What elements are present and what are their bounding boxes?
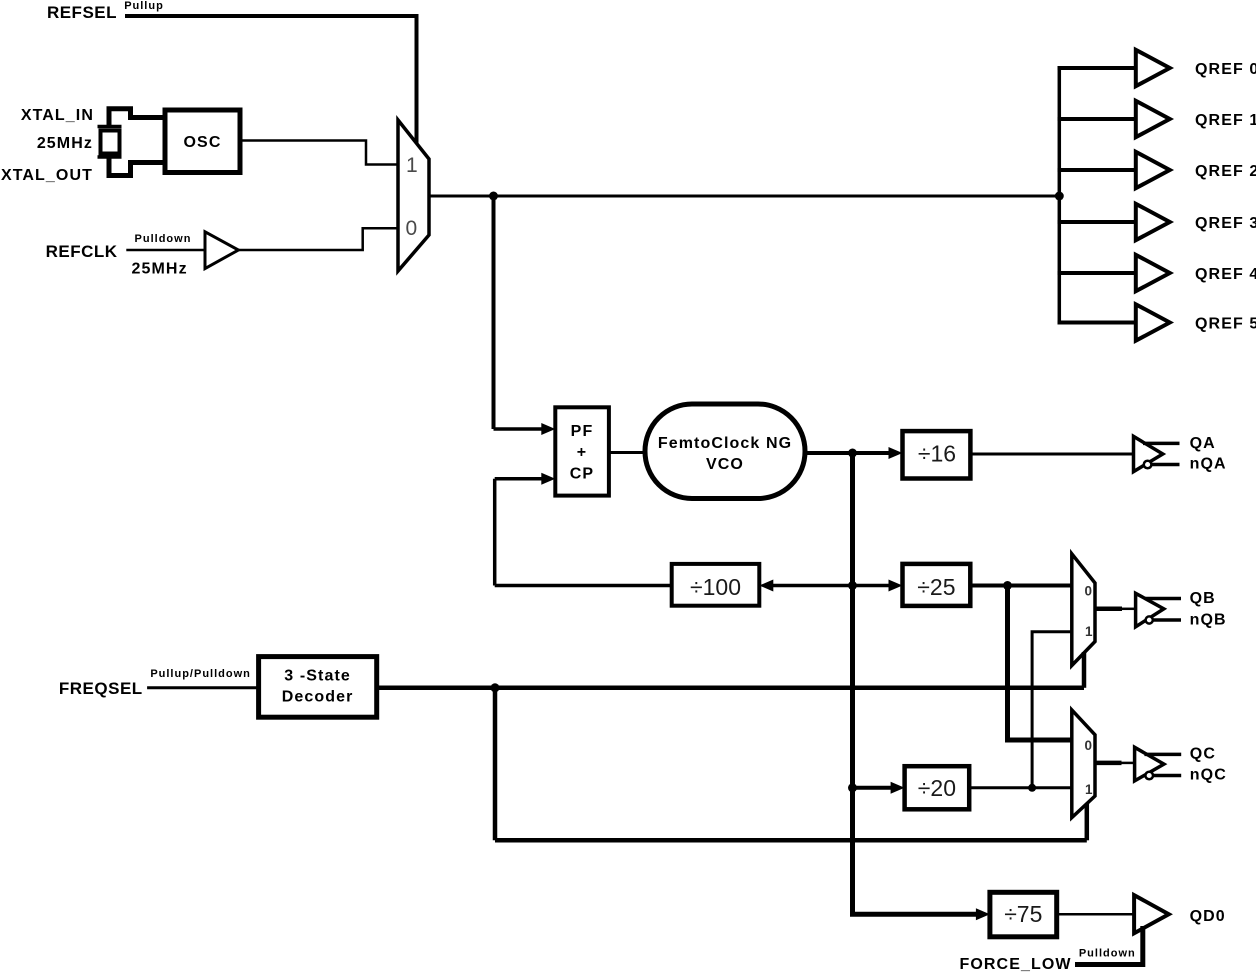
svg-text:÷100: ÷100 bbox=[690, 574, 741, 600]
wire VCO trunk vertical bbox=[850, 453, 855, 914]
block PF+CP bbox=[555, 407, 609, 495]
svg-text:FORCE_LOW: FORCE_LOW bbox=[959, 956, 1071, 973]
mux QC select bbox=[1072, 710, 1095, 818]
svg-text:1: 1 bbox=[406, 154, 418, 177]
wire QC mux select vertical bbox=[1085, 803, 1090, 840]
wire feedback vertical bbox=[493, 479, 497, 586]
svg-text:QB: QB bbox=[1190, 590, 1216, 607]
wire QB output bbox=[1145, 597, 1181, 601]
buffer QREF0 bbox=[1136, 50, 1170, 86]
svg-text:Pullup/Pulldown: Pullup/Pulldown bbox=[150, 668, 251, 680]
svg-text:QREF 5: QREF 5 bbox=[1195, 316, 1256, 333]
bubble nQB bbox=[1146, 616, 1153, 623]
svg-text:nQB: nQB bbox=[1190, 612, 1227, 629]
svg-text:0: 0 bbox=[1085, 738, 1093, 753]
divider div20 bbox=[905, 766, 970, 809]
svg-text:+: + bbox=[577, 444, 587, 461]
buffer QREF4 bbox=[1136, 255, 1170, 291]
wire FORCE_LOW to QD0 buffer bbox=[1075, 926, 1143, 965]
wire XTAL_IN bbox=[109, 109, 165, 127]
junction div20 input bbox=[848, 783, 857, 792]
svg-text:÷75: ÷75 bbox=[1004, 901, 1042, 927]
svg-text:FREQSEL: FREQSEL bbox=[59, 679, 143, 698]
divider div100 bbox=[672, 564, 760, 606]
wire to div25 bbox=[853, 584, 897, 588]
wire OSC to mux input 1 bbox=[240, 141, 398, 165]
block OSC bbox=[165, 110, 240, 173]
wire QREF1 branch bbox=[1058, 117, 1136, 121]
buffer QC differential bbox=[1135, 747, 1164, 781]
junction VCO output bbox=[848, 449, 857, 458]
crystal Y1 bottom plate bbox=[98, 155, 122, 159]
arrowhead into PF+CP ref input bbox=[541, 423, 555, 435]
svg-text:Pulldown: Pulldown bbox=[135, 233, 192, 245]
arrowhead into div75 bbox=[976, 908, 990, 920]
svg-text:REFCLK: REFCLK bbox=[46, 242, 118, 261]
svg-text:0: 0 bbox=[1085, 584, 1093, 599]
svg-text:3 -State: 3 -State bbox=[284, 668, 351, 685]
junction div20 output bbox=[1028, 784, 1036, 792]
arrowhead into div16 bbox=[889, 447, 903, 459]
wire feedback into PF+CP bbox=[495, 477, 545, 481]
junction div100 line bbox=[848, 581, 857, 590]
svg-text:QC: QC bbox=[1190, 746, 1216, 763]
block 3-State Decoder bbox=[259, 657, 377, 718]
svg-text:÷20: ÷20 bbox=[918, 775, 956, 801]
bubble nQC bbox=[1145, 772, 1153, 780]
junction QREF bus bbox=[1055, 192, 1064, 201]
wire PF+CP to VCO bbox=[609, 451, 645, 454]
svg-text:QREF 1: QREF 1 bbox=[1195, 112, 1256, 129]
buffer REFCLK bbox=[205, 232, 238, 269]
svg-text:CP: CP bbox=[570, 466, 594, 483]
wire nQB output bbox=[1153, 618, 1181, 622]
svg-text:÷25: ÷25 bbox=[917, 574, 955, 600]
svg-text:VCO: VCO bbox=[706, 456, 744, 473]
wire decoder to QB mux select bbox=[377, 686, 1084, 691]
svg-text:nQA: nQA bbox=[1190, 456, 1227, 473]
svg-text:1: 1 bbox=[1085, 624, 1093, 639]
wire VCO output bbox=[805, 451, 896, 455]
wire div20 to QC mux input 1 bbox=[969, 786, 1072, 789]
svg-text:÷16: ÷16 bbox=[918, 441, 956, 467]
wire into div20 bbox=[853, 786, 899, 790]
svg-text:QREF 0: QREF 0 bbox=[1195, 61, 1256, 78]
junction mux output bbox=[489, 192, 498, 201]
wire div20 up to QB mux input 1 bbox=[1032, 632, 1072, 788]
buffer QREF1 bbox=[1136, 101, 1170, 137]
svg-text:XTAL_IN: XTAL_IN bbox=[21, 107, 94, 124]
wire decoder to QC mux select bbox=[495, 838, 1087, 843]
wire QREF5 branch bbox=[1058, 321, 1136, 325]
svg-text:QREF 4: QREF 4 bbox=[1195, 266, 1256, 283]
junction decoder output bbox=[491, 683, 500, 692]
buffer QREF3 bbox=[1136, 204, 1170, 240]
svg-text:Pullup: Pullup bbox=[124, 0, 164, 12]
wire trunk to div75 bbox=[850, 912, 983, 917]
svg-text:PF: PF bbox=[571, 423, 594, 440]
wire mux output to QREF bus bbox=[429, 195, 1059, 198]
arrowhead into div20 bbox=[891, 782, 905, 794]
bubble nQA bbox=[1144, 461, 1152, 469]
wire FREQSEL to decoder bbox=[147, 686, 259, 689]
divider div75 bbox=[990, 892, 1057, 937]
svg-text:QA: QA bbox=[1190, 435, 1216, 452]
wire QC mux output bbox=[1095, 761, 1122, 766]
svg-text:REFSEL: REFSEL bbox=[47, 3, 117, 22]
wire QB mux output bbox=[1095, 607, 1122, 612]
arrowhead into PF+CP fb input bbox=[541, 473, 555, 485]
svg-text:Pulldown: Pulldown bbox=[1079, 948, 1136, 960]
arrowhead into div25 bbox=[889, 580, 903, 592]
wire buffer to mux input 0 bbox=[238, 228, 398, 250]
buffer QD0 bbox=[1134, 895, 1169, 933]
wire QA output bbox=[1143, 442, 1180, 446]
divider div16 bbox=[903, 431, 971, 478]
svg-text:1: 1 bbox=[1085, 782, 1093, 797]
svg-text:OSC: OSC bbox=[184, 134, 222, 151]
wire junction down to PFD bbox=[492, 196, 496, 429]
arrowhead into div100 bbox=[759, 580, 773, 592]
oscillator U1 FemtoClock NG VCO bbox=[645, 404, 805, 499]
wire REFSEL to mux select bbox=[125, 16, 417, 149]
wire REFCLK to buffer bbox=[126, 249, 205, 252]
svg-text:QREF 2: QREF 2 bbox=[1195, 163, 1256, 180]
wire QREF3 branch bbox=[1058, 220, 1136, 224]
divider div25 bbox=[903, 564, 971, 606]
buffer QREF2 bbox=[1136, 152, 1170, 188]
wire div25 to QB mux input 0 bbox=[970, 584, 1072, 588]
svg-text:QREF 3: QREF 3 bbox=[1195, 215, 1256, 232]
svg-text:0: 0 bbox=[406, 217, 418, 240]
svg-text:FemtoClock NG: FemtoClock NG bbox=[658, 435, 792, 452]
junction div25 output bbox=[1003, 581, 1012, 590]
wire div75 to QD0 buffer bbox=[1057, 913, 1134, 916]
wire QREF4 branch bbox=[1058, 271, 1136, 275]
crystal Y1 top plate bbox=[98, 125, 122, 129]
svg-text:XTAL_OUT: XTAL_OUT bbox=[1, 167, 93, 184]
wire XTAL_OUT bbox=[109, 157, 165, 176]
wire nQA output bbox=[1151, 463, 1179, 467]
wire QREF0 branch bbox=[1058, 66, 1136, 70]
svg-text:25MHz: 25MHz bbox=[132, 261, 188, 278]
svg-text:nQC: nQC bbox=[1190, 767, 1227, 784]
mux QB select bbox=[1072, 554, 1095, 666]
mux reference select bbox=[398, 120, 429, 271]
svg-text:QD0: QD0 bbox=[1190, 908, 1226, 925]
wire QC output bbox=[1144, 753, 1181, 757]
wire div16 to QA buffer bbox=[970, 453, 1133, 456]
wire decoder branch down bbox=[493, 688, 498, 841]
QREF bus vertical bbox=[1058, 66, 1062, 324]
buffer QA differential bbox=[1134, 436, 1163, 471]
wire div25 down to QC mux input 0 bbox=[1008, 586, 1072, 741]
svg-text:25MHz: 25MHz bbox=[37, 135, 93, 152]
crystal Y1 body bbox=[101, 131, 120, 154]
wire feedback horizontal from div100 bbox=[495, 584, 672, 588]
wire QB mux select vertical bbox=[1082, 652, 1087, 688]
wire into div100 bbox=[766, 584, 853, 588]
svg-text:Decoder: Decoder bbox=[282, 689, 354, 706]
wire QREF2 branch bbox=[1058, 168, 1136, 172]
buffer QB differential bbox=[1136, 593, 1164, 627]
wire nQC output bbox=[1153, 774, 1181, 778]
wire into PF+CP ref input bbox=[494, 427, 546, 431]
buffer QREF5 bbox=[1136, 304, 1170, 340]
